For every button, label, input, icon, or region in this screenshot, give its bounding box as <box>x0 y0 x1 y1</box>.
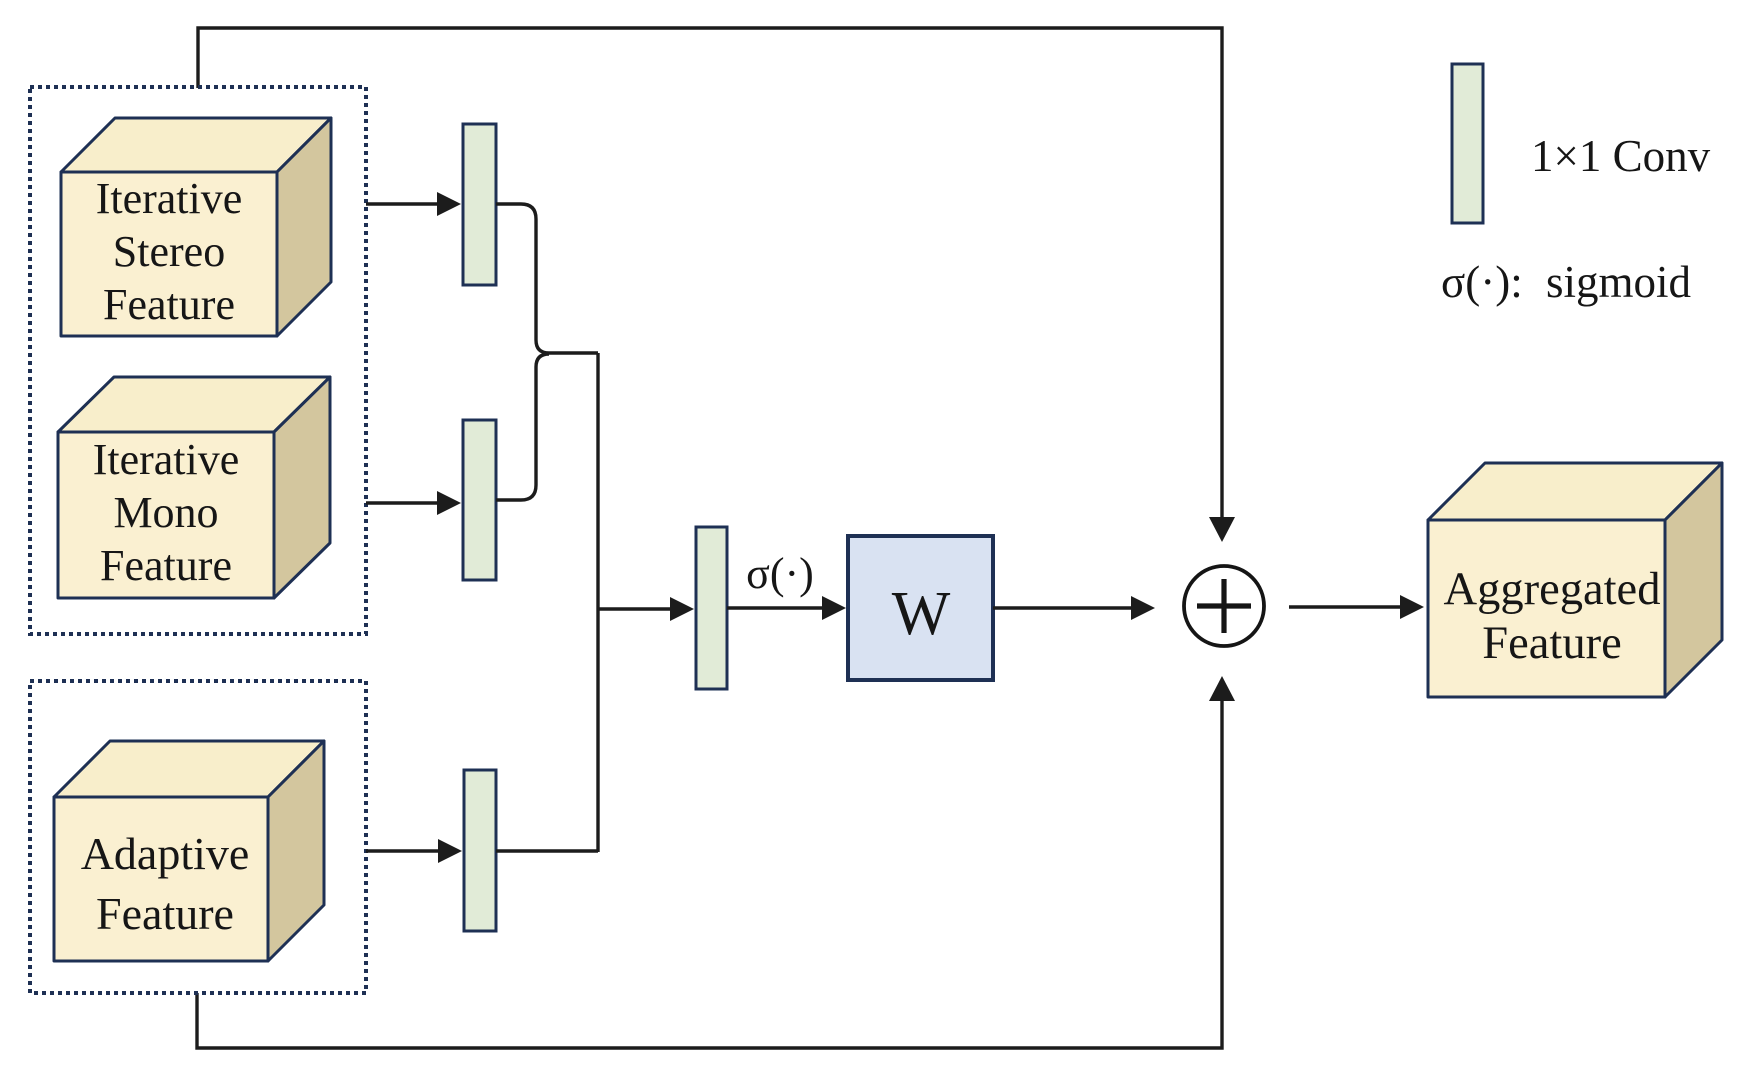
block: 1x1 conv bar U1 (stereo) <box>463 124 496 285</box>
block: Iterative Mono Feature cube <box>58 377 330 598</box>
svg-text:1×1 Conv: 1×1 Conv <box>1531 131 1711 181</box>
label: Iterative Stereo Feature <box>96 174 243 329</box>
svg-text:Adaptive: Adaptive <box>81 828 250 879</box>
arrowhead: into conv bar U1 <box>437 192 461 216</box>
svg-text:W: W <box>892 580 951 648</box>
wire: adder to aggregated feature <box>1289 605 1400 608</box>
arrowhead: into conv bar U3 <box>438 839 462 863</box>
arrowhead: up into adder bottom <box>1209 676 1235 701</box>
wire: bottom feedback from adaptive group box down and across to adder <box>197 700 1222 1048</box>
wire: weight block W to adder <box>993 606 1131 609</box>
legend: 1x1 conv bar sample <box>1452 64 1483 223</box>
svg-text:sigmoid: sigmoid <box>1546 257 1691 307</box>
wire: adaptive feature to conv bar U3 <box>366 849 438 852</box>
arrowhead: into aggregated feature cube <box>1400 595 1424 619</box>
svg-text:Feature: Feature <box>1482 618 1621 669</box>
adder plus sign <box>1197 579 1251 633</box>
label: Aggregated Feature <box>1444 564 1661 669</box>
wire: mono feature to conv bar U2 <box>366 501 437 504</box>
block: 1x1 conv bar U3 (adaptive) <box>464 770 496 931</box>
arrowhead: into adder left <box>1131 596 1155 620</box>
svg-text:Stereo: Stereo <box>113 227 225 276</box>
block: Iterative Stereo Feature cube <box>61 118 331 336</box>
svg-text:Aggregated: Aggregated <box>1444 564 1661 615</box>
svg-text:Feature: Feature <box>96 888 234 939</box>
svg-text:Iterative: Iterative <box>96 174 243 223</box>
svg-text:Mono: Mono <box>113 488 218 537</box>
group box: iterative stereo + mono features (dotted) <box>30 87 366 634</box>
label: Iterative Mono Feature <box>93 435 240 590</box>
block: 1x1 conv bar U4 (pre-sigmoid) <box>696 527 727 689</box>
arrowhead: into conv bar U2 <box>437 491 461 515</box>
svg-text:σ(·):: σ(·): <box>1441 257 1523 307</box>
block: weight matrix W <box>848 536 993 680</box>
wire: bus junction to sigmoid conv bar U4 <box>598 607 670 610</box>
wire: conv bar U3 output to vertical bus junction <box>496 849 598 852</box>
arrowhead: into sigmoid conv bar U4 <box>670 597 694 621</box>
block: Aggregated Feature cube <box>1428 463 1722 697</box>
group box: adaptive feature (dotted) <box>30 681 366 993</box>
block: Adaptive Feature cube <box>54 741 324 961</box>
svg-text:σ(·): σ(·) <box>746 549 814 598</box>
arrowhead: into weight block W <box>822 596 846 620</box>
wire: top feedback from iterative group box up and across to adder <box>198 28 1222 518</box>
wire: stereo feature to conv bar U1 <box>366 202 437 205</box>
wire: conv bar U2 output curving up to merge brace <box>496 354 549 500</box>
svg-text:Iterative: Iterative <box>93 435 240 484</box>
adder: circled plus summation node <box>1184 566 1264 646</box>
wire: conv bar U1 output curving down to merge brace <box>496 204 598 353</box>
svg-text:Feature: Feature <box>100 541 232 590</box>
wire: sigmoid bar U4 to weight block W <box>727 606 822 609</box>
arrowhead: down into adder top <box>1209 517 1235 542</box>
block: 1x1 conv bar U2 (mono) <box>463 420 496 580</box>
svg-text:Feature: Feature <box>103 280 235 329</box>
wire: merged vertical bus from brace down to adaptive junction <box>596 353 599 852</box>
label: Adaptive Feature <box>81 828 250 939</box>
